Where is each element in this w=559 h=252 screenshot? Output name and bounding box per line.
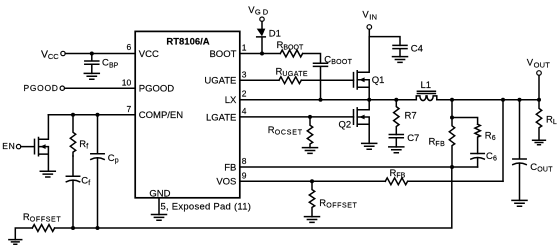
svg-text:G D: G D (255, 7, 269, 16)
pin 9 VOS label (216, 171, 246, 188)
svg-text:5, Exposed Pad (11): 5, Exposed Pad (11) (161, 201, 252, 212)
svg-text:f: f (86, 144, 88, 151)
capacitor C7 (389, 133, 419, 147)
wire divider vertical (451, 100, 453, 118)
wire compensation rail (55, 167, 452, 228)
resistor R7 (394, 100, 417, 135)
svg-text:BP: BP (109, 62, 119, 69)
svg-text:OFFSET: OFFSET (326, 202, 357, 209)
IC GND stem (158, 198, 160, 215)
svg-text:VCC: VCC (139, 49, 159, 60)
node CBOOT/LX junction (319, 98, 323, 102)
wire LGATE pin4 (240, 116, 354, 118)
svg-text:R7: R7 (405, 111, 417, 122)
svg-text:OUT: OUT (534, 60, 551, 69)
svg-text:8: 8 (242, 156, 247, 166)
svg-text:6: 6 (492, 135, 496, 142)
wire R6 branch top (452, 118, 478, 125)
wire PGOOD to pin10 (65, 87, 136, 89)
pin 2 LX label (225, 88, 247, 106)
ground (ROFFSET vertical) (305, 217, 320, 223)
pin 7 COMP/EN label (126, 104, 183, 121)
svg-text:10: 10 (122, 78, 132, 88)
svg-text:C: C (102, 58, 109, 69)
wire VIN to C4 (369, 29, 400, 45)
capacitor C4 (393, 43, 423, 56)
node Cp top (96, 113, 100, 117)
capacitor Cp (91, 115, 119, 228)
svg-text:FB: FB (224, 162, 236, 173)
pin 8 FB label (224, 156, 247, 173)
resistor ROFFSET (left) (23, 212, 61, 231)
svg-text:VOS: VOS (216, 177, 236, 188)
svg-text:LX: LX (225, 95, 237, 106)
svg-text:FB: FB (396, 173, 405, 180)
node COUT top (518, 98, 522, 102)
svg-text:C7: C7 (407, 133, 419, 144)
ground (left rail) (9, 240, 22, 245)
svg-text:IN: IN (369, 12, 377, 21)
svg-text:6: 6 (493, 156, 497, 163)
svg-text:OCSET: OCSET (275, 129, 303, 136)
svg-text:L1: L1 (421, 80, 432, 91)
node phase/Q1Q2 (367, 98, 371, 102)
transistor Q2 (339, 100, 370, 144)
node divider split (450, 116, 454, 120)
node R7 top (394, 98, 398, 102)
ground (ROCSET) (303, 148, 318, 154)
resistor RFB (vertical) (429, 118, 455, 168)
resistor ROFFSET (vertical) (309, 181, 357, 216)
resistor Rf (70, 115, 88, 156)
exposed pad note (161, 201, 252, 212)
svg-text:CC: CC (48, 52, 59, 61)
resistor RFB (horizontal) (385, 168, 407, 185)
svg-text:BOOT: BOOT (209, 49, 236, 60)
terminal VOUT (527, 58, 550, 76)
ground (CBP) (84, 73, 99, 79)
svg-text:PGOOD: PGOOD (24, 83, 59, 93)
svg-text:UGATE: UGATE (204, 76, 236, 87)
node ROCSET top (308, 115, 312, 119)
ground (COUT) (512, 200, 527, 206)
node RL top (537, 98, 541, 102)
terminal VCC (41, 49, 65, 62)
svg-text:GND: GND (149, 188, 170, 199)
svg-text:Q1: Q1 (372, 75, 385, 86)
svg-text:BOOT: BOOT (283, 45, 304, 52)
wire VCC to pin6 (65, 53, 135, 55)
terminal VGD (248, 5, 269, 22)
svg-text:Q2: Q2 (339, 119, 352, 130)
svg-text:C: C (486, 151, 493, 162)
wire VOUT stem (538, 75, 540, 99)
node RFB sense top (501, 98, 505, 102)
svg-text:4: 4 (242, 106, 247, 116)
svg-text:LGATE: LGATE (206, 112, 236, 123)
wire RFB to sense (408, 180, 503, 182)
svg-text:PGOOD: PGOOD (139, 84, 175, 95)
terminal PGOOD (24, 83, 65, 93)
pin 4 LGATE label (206, 106, 247, 123)
wire VOS pin9 (240, 180, 385, 182)
ground (EN MOSFET source) (40, 171, 55, 177)
svg-text:6: 6 (126, 42, 131, 52)
wire BOOT pin1 (240, 53, 280, 55)
node D1/BOOT junction (260, 52, 264, 56)
node divider top (450, 98, 454, 102)
node Cp bottom (96, 226, 100, 230)
capacitor CBP (85, 54, 119, 74)
wire UGATE pin3 (240, 79, 279, 81)
pin 6 VCC label (126, 42, 159, 60)
svg-text:EN: EN (2, 141, 15, 151)
svg-text:RT8106/A: RT8106/A (166, 37, 209, 48)
node FB junction (450, 165, 454, 169)
pin 1 BOOT label (209, 43, 246, 60)
resistor RUGATE (276, 66, 309, 83)
resistor RL (536, 100, 557, 141)
svg-text:9: 9 (242, 171, 247, 181)
resistor ROCSET (268, 117, 313, 148)
node ROFFSET/VOS junction (310, 179, 314, 183)
wire COMP/EN (48, 114, 135, 116)
svg-text:7: 7 (126, 104, 131, 114)
capacitor COUT (513, 100, 554, 201)
pin GND label (149, 188, 170, 199)
wire rail left (15, 228, 32, 240)
svg-text:OUT: OUT (537, 166, 553, 173)
svg-text:p: p (115, 158, 119, 165)
svg-text:FB: FB (435, 141, 445, 148)
ground (C4) (393, 57, 408, 63)
ground (Q2 source) (362, 143, 377, 149)
svg-text:BOOT: BOOT (331, 59, 352, 66)
diode D1 (257, 21, 281, 53)
ground (RL) (533, 140, 546, 145)
capacitor CBOOT (314, 54, 353, 99)
node Rf top (71, 113, 75, 117)
resistor R6 (475, 124, 496, 153)
svg-text:COMP/EN: COMP/EN (139, 110, 183, 121)
wire RBOOT to CBOOT (303, 54, 321, 64)
IC U1 RT8106/A box (135, 31, 240, 197)
svg-text:1: 1 (242, 43, 247, 53)
svg-text:UGATE: UGATE (282, 71, 308, 78)
svg-text:C: C (324, 54, 331, 65)
svg-text:D1: D1 (269, 28, 281, 39)
pin 10 PGOOD label (122, 78, 175, 95)
inductor L1 (416, 80, 437, 101)
svg-text:2: 2 (242, 88, 247, 98)
ground (IC GND) (152, 215, 167, 221)
wire FB pin8 (240, 166, 478, 168)
ground (C7) (389, 147, 404, 153)
resistor RBOOT (277, 40, 304, 57)
capacitor Cf (66, 156, 90, 228)
wire RUGATE to Q1 gate (301, 79, 353, 81)
svg-text:f: f (88, 180, 90, 187)
terminal VIN (362, 10, 377, 30)
svg-text:OFFSET: OFFSET (30, 217, 62, 224)
wire LX pin2 / phase node (240, 99, 416, 101)
svg-text:C4: C4 (411, 43, 423, 54)
node VCC/CBP junction (90, 52, 94, 56)
svg-text:C: C (530, 162, 537, 173)
svg-text:L: L (553, 119, 557, 126)
transistor EN MOSFET (21, 115, 49, 171)
wire VOUT sense vertical (502, 100, 504, 182)
pin 3 UGATE label (204, 69, 246, 86)
wire output node (437, 99, 539, 101)
capacitor C6 (471, 151, 497, 167)
node Cf bottom (71, 226, 75, 230)
svg-text:3: 3 (242, 69, 247, 79)
terminal EN (2, 141, 21, 151)
transistor Q1 (354, 37, 385, 100)
svg-text:C: C (108, 153, 115, 164)
